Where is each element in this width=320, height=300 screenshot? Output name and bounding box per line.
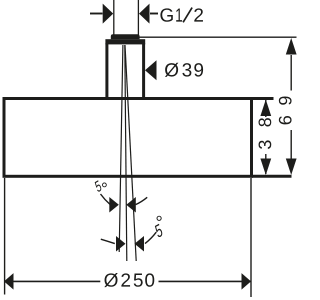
label G of G1/2: [160, 8, 172, 21]
38 dimension line lower segment: [265, 154, 267, 174]
label 5 of lower angle: [154, 224, 163, 238]
lower 5deg left leader: [101, 239, 115, 243]
shower plate outline: [4, 99, 252, 177]
pipe thread right wall (extension line): [137, 0, 139, 36]
connector left wall: [105, 43, 108, 99]
pipe thread left wall (extension line): [113, 0, 115, 36]
69 dimension line lower segment: [290, 130, 292, 159]
label 6 of 69 rotated: [279, 116, 292, 124]
69 dim bottom arrowhead: [286, 159, 297, 176]
connector right wall: [142, 43, 145, 99]
O250 dimension line left segment: [5, 280, 100, 282]
O250 right extension line: [250, 178, 252, 297]
spray centerline: [125, 45, 127, 261]
top extension line for 69 dimension: [140, 36, 297, 38]
label diameter symbol of O250: [104, 273, 117, 287]
O250 dim right arrowhead: [242, 273, 252, 290]
spray right angle line: [125, 45, 136, 261]
label 3 of O39: [182, 63, 191, 76]
69 dim top arrowhead: [286, 38, 297, 55]
38 dim bottom arrowhead: [260, 159, 271, 176]
label 8 of 38 rotated: [259, 118, 272, 126]
label 0 of O250: [145, 273, 154, 286]
thread flange cap (filled): [111, 34, 140, 39]
label 3 of 38 rotated: [259, 140, 272, 149]
label 1 of G1/2: [176, 9, 182, 22]
upper angle right arrowhead: [126, 197, 136, 213]
label diameter symbol of O39: [165, 63, 178, 77]
38 top extension (plate top edge extended): [252, 97, 274, 100]
label 2 of G1/2: [194, 8, 203, 21]
upper angle left arrowhead: [109, 197, 119, 213]
upper 5deg left leader: [101, 194, 111, 204]
lower angle left arrowhead: [116, 236, 126, 252]
upper 5deg right leader: [136, 197, 148, 204]
38 dimension line upper segment: [265, 100, 267, 117]
O250 dimension line right segment: [159, 280, 251, 282]
label 5 of upper angle: [94, 180, 102, 192]
label degree of lower angle: [157, 216, 162, 221]
G1/2 dimension right leader: [150, 13, 158, 15]
69 dimension line upper segment: [290, 55, 292, 91]
O39 arrowhead: [145, 60, 157, 80]
38 dim top arrowhead: [260, 100, 271, 117]
label 2 of O250: [121, 273, 130, 286]
lower 5deg right leader: [145, 232, 156, 243]
G1/2 dim right arrowhead: [139, 4, 150, 24]
label degree of upper angle: [102, 183, 107, 188]
G1/2 dim left arrowhead: [103, 4, 114, 24]
spray left angle line: [119, 45, 123, 252]
O250 left extension line: [4, 178, 6, 295]
G1/2 dimension left leader: [90, 13, 103, 15]
label 5 of O250: [134, 274, 143, 287]
connector top bar (filled): [105, 39, 145, 44]
label 9 of O39: [194, 63, 203, 76]
bottom extension (plate bottom edge extended): [252, 175, 292, 178]
O250 dim left arrowhead: [4, 273, 14, 290]
label 9 of 69 rotated: [279, 96, 292, 104]
label slash of G1/2: [183, 8, 192, 23]
lower angle right arrowhead: [135, 236, 145, 252]
